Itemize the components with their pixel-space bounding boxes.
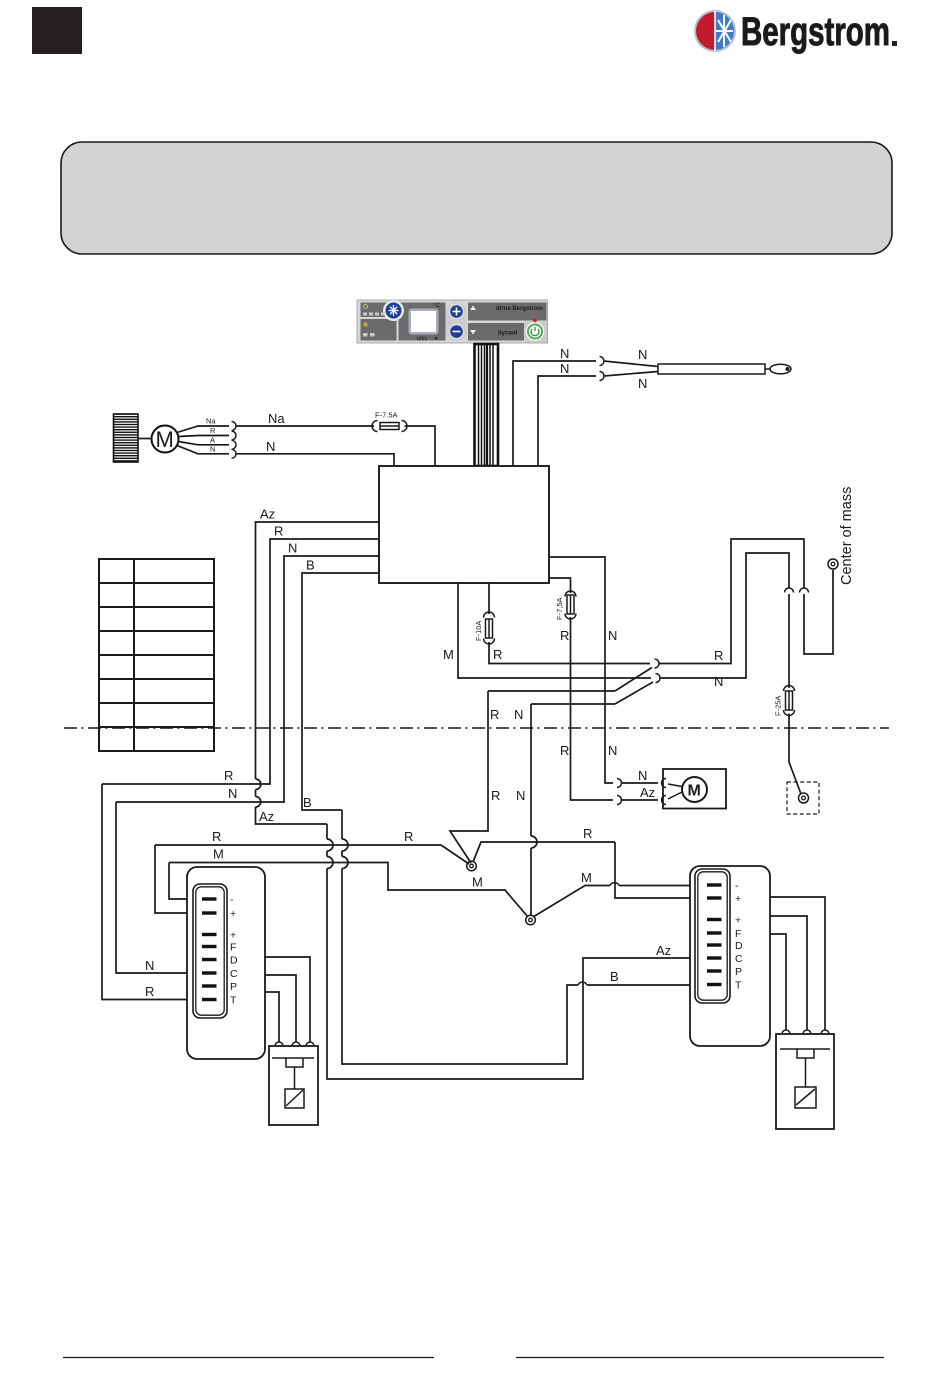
- svg-text:R: R: [145, 984, 154, 999]
- black corner tab: [32, 7, 82, 54]
- svg-text:P: P: [230, 981, 237, 993]
- svg-text:N: N: [266, 439, 275, 454]
- svg-text:Az: Az: [640, 785, 655, 800]
- probe tip: [765, 368, 771, 370]
- svg-text:N: N: [145, 958, 154, 973]
- left fuel pump: [269, 1046, 318, 1125]
- junction ground point (R): [467, 861, 477, 871]
- wire R to heater connector (+): [615, 842, 707, 898]
- wire N from control unit right: [549, 557, 613, 783]
- wire fuse F1 to control unit: [405, 426, 436, 466]
- footer rule right: [516, 1357, 884, 1359]
- wire N from control unit to probe connector (lower): [538, 376, 596, 466]
- svg-text:M: M: [472, 875, 483, 890]
- connector on Az wire: [617, 796, 622, 805]
- svg-text:bycool: bycool: [498, 331, 518, 337]
- wire Na to fuse F1: [236, 425, 374, 427]
- wire R junction to right harness: [473, 842, 615, 862]
- svg-text:P: P: [735, 966, 742, 978]
- svg-text:T: T: [735, 980, 742, 992]
- svg-text:D: D: [230, 955, 238, 967]
- wire R down to junction (zigzag): [450, 691, 488, 863]
- hop B over R: [342, 839, 348, 851]
- footer rule left: [63, 1357, 434, 1359]
- connector N: [232, 449, 237, 458]
- grey title panel: [61, 142, 892, 254]
- wire M from control unit bottom: [458, 583, 651, 678]
- svg-text:dirna Bergstrom: dirna Bergstrom: [496, 306, 543, 312]
- wire R from control unit right to fuse F3: [549, 578, 571, 593]
- wire to left pump (2): [265, 975, 296, 1042]
- wire M to left heater connector (-): [169, 863, 202, 900]
- connector Na: [232, 422, 237, 431]
- svg-text:+: +: [230, 930, 236, 942]
- wire Az loop with hops: [327, 824, 707, 1079]
- wire Az to motor box: [622, 799, 659, 801]
- wire to left pump (3): [265, 992, 279, 1042]
- wire R to left heater connector (T): [102, 784, 202, 1000]
- wire N right loop: [661, 553, 790, 678]
- right heater connector: [695, 869, 730, 1003]
- svg-text:R: R: [210, 426, 216, 435]
- svg-text:Az: Az: [260, 507, 275, 522]
- svg-text:M: M: [688, 783, 701, 800]
- svg-text:N: N: [228, 786, 237, 801]
- pump terminal 1: [306, 1042, 314, 1046]
- wire R right loop: [660, 539, 805, 664]
- svg-text:N: N: [608, 628, 617, 643]
- wire R to chassis ground (center of mass): [804, 570, 833, 654]
- svg-text:R: R: [490, 707, 499, 722]
- pins: [707, 883, 722, 886]
- wire B from control unit left: [302, 573, 379, 810]
- left heater unit: [187, 867, 265, 1059]
- svg-text:Az: Az: [259, 809, 274, 824]
- wire R from control unit bottom to fuse F2: [488, 583, 490, 614]
- svg-text:N: N: [638, 376, 647, 391]
- wire to right pump (1): [770, 897, 825, 1030]
- svg-text:N: N: [516, 788, 525, 803]
- svg-text:N: N: [560, 346, 569, 361]
- hop Az over M: [327, 857, 333, 869]
- control panel: [357, 300, 548, 343]
- wire N to left heater connector (C): [116, 802, 202, 973]
- svg-text:MIN: MIN: [417, 337, 427, 343]
- wire N to motor box: [622, 782, 659, 784]
- svg-text:R: R: [274, 524, 283, 539]
- connector on M wire: [656, 674, 661, 683]
- wire R from fuse F2: [489, 642, 650, 664]
- wire B loop with hops: [342, 810, 707, 1064]
- pump terminal 3: [782, 1030, 790, 1034]
- pump terminal 3: [275, 1042, 283, 1046]
- control unit (electronic control box): [379, 466, 549, 583]
- cab/chassis separation line: [64, 727, 889, 729]
- svg-text:Center of mass: Center of mass: [839, 487, 855, 585]
- svg-text:R: R: [212, 829, 221, 844]
- wire R from control unit left: [102, 539, 379, 784]
- wire M harness: [169, 863, 528, 918]
- connector on N wire: [617, 779, 622, 788]
- svg-text:F: F: [735, 928, 741, 940]
- svg-text:+: +: [230, 908, 236, 920]
- svg-text:+: +: [735, 893, 741, 905]
- svg-text:M: M: [213, 847, 224, 862]
- svg-text:F-7,5A: F-7,5A: [555, 597, 564, 620]
- svg-text:R: R: [224, 768, 233, 783]
- svg-text:Az: Az: [656, 943, 671, 958]
- battery ground (dashed box): [787, 782, 819, 814]
- svg-text:R: R: [583, 826, 592, 841]
- svg-text:F-25A: F-25A: [774, 696, 783, 716]
- svg-text:N: N: [288, 541, 297, 556]
- condenser motor M2 box: [663, 769, 726, 809]
- wire R from fuse F3 down to condenser motor Az pin: [571, 617, 614, 800]
- fuse F2 F-10A: [484, 612, 495, 644]
- svg-text:N: N: [514, 707, 523, 722]
- junction ground point (M): [526, 915, 536, 925]
- pump terminal 2: [292, 1042, 300, 1046]
- wire to left pump (1): [265, 957, 310, 1042]
- pins: [202, 897, 217, 900]
- fuse F1 F-7.5A: [372, 421, 407, 432]
- svg-text:Bergstrom: Bergstrom: [741, 10, 890, 54]
- wire R jumper diagonal: [615, 668, 652, 692]
- svg-text:N: N: [608, 743, 617, 758]
- ribbon cable from panel to control unit: [475, 344, 499, 466]
- wire Az from control unit left: [256, 522, 380, 824]
- svg-text:R: R: [404, 829, 413, 844]
- svg-text:B: B: [610, 969, 619, 984]
- wire N jumper diagonal: [615, 682, 653, 704]
- svg-text:-: -: [230, 894, 234, 906]
- svg-text:°C: °C: [433, 301, 441, 309]
- svg-text:T: T: [230, 995, 237, 1007]
- pump terminal 1: [821, 1030, 829, 1034]
- right heater unit: [690, 866, 770, 1046]
- pin socket N: [662, 779, 667, 788]
- wire N from control unit to probe connector (upper): [513, 361, 596, 466]
- hop B over Az: [578, 982, 587, 985]
- pump terminal 2: [803, 1030, 811, 1034]
- wire R harness horizontal: [155, 844, 441, 846]
- svg-text:R: R: [560, 743, 569, 758]
- svg-text:A: A: [210, 436, 215, 445]
- svg-text:F-7.5A: F-7.5A: [375, 411, 398, 420]
- fuse F4 F-25A: [784, 686, 795, 716]
- hop of M wire over R wire: [610, 883, 619, 886]
- connector on N wire: [785, 588, 794, 593]
- svg-text:R: R: [714, 648, 723, 663]
- wire to right pump (2): [770, 916, 807, 1030]
- connector on R wire: [800, 588, 809, 593]
- wire N motor to control unit: [236, 454, 394, 466]
- wire M from junction to heater connector (-): [533, 886, 707, 918]
- evaporator fan: [114, 414, 139, 462]
- svg-text:R: R: [560, 628, 569, 643]
- svg-text:R: R: [493, 647, 502, 662]
- right fuel pump: [776, 1034, 834, 1129]
- wire R from left harness diagonal: [441, 845, 469, 864]
- ground point center of mass: [828, 559, 838, 569]
- wire to motor circle (upper): [668, 784, 682, 787]
- svg-text:Na: Na: [268, 411, 285, 426]
- pin socket Az: [662, 796, 667, 805]
- temperature probe body: [658, 364, 765, 374]
- fuse F3 F-7.5A: [565, 591, 576, 619]
- Bergstrom logo: [694, 10, 897, 54]
- wire N to lower section: [531, 703, 615, 705]
- wire R motor lead: [179, 436, 230, 437]
- svg-text:M: M: [581, 870, 592, 885]
- svg-text:N: N: [638, 347, 647, 362]
- svg-text:+: +: [735, 915, 741, 927]
- wire N motor lead: [177, 446, 229, 454]
- svg-text:F-10A: F-10A: [474, 621, 483, 641]
- connector on lower N wire: [600, 372, 605, 381]
- svg-text:N: N: [560, 361, 569, 376]
- svg-text:R: R: [491, 788, 500, 803]
- connector on R wire: [655, 659, 660, 668]
- wire N from control unit left: [116, 556, 379, 802]
- fuse/relay legend table: [99, 559, 214, 751]
- svg-text:B: B: [303, 795, 312, 810]
- hop Az over N: [256, 797, 261, 808]
- wire N down to junction: [530, 704, 532, 915]
- hop Az over R: [256, 779, 261, 790]
- connector R: [232, 431, 237, 440]
- wire R to left heater connector (+): [155, 845, 202, 913]
- left heater connector: [193, 884, 227, 1018]
- hop Az over R: [327, 839, 333, 851]
- svg-text:F: F: [230, 942, 236, 954]
- connector A: [232, 440, 237, 449]
- svg-text:M: M: [443, 647, 454, 662]
- svg-text:Na: Na: [206, 417, 216, 426]
- wire to motor circle (lower): [668, 792, 682, 799]
- svg-text:N: N: [210, 445, 215, 454]
- svg-text:C: C: [230, 968, 238, 980]
- wire Na motor lead: [177, 426, 229, 433]
- wire N from fuse F4 to battery ground: [789, 714, 801, 795]
- wire to right pump (3): [770, 934, 786, 1030]
- hop of N wire over R wire: [531, 836, 537, 848]
- blower motor M1: [152, 426, 179, 453]
- svg-text:C: C: [735, 953, 743, 965]
- svg-text:N: N: [714, 674, 723, 689]
- hop B over M: [342, 857, 348, 869]
- svg-text:B: B: [306, 558, 315, 573]
- wire A motor lead: [179, 442, 230, 445]
- svg-text:M: M: [156, 427, 174, 452]
- svg-text:◕: ◕: [434, 335, 438, 342]
- wire N to fuse F4: [788, 594, 790, 688]
- wire R to lower section: [488, 690, 615, 692]
- svg-text:D: D: [735, 940, 743, 952]
- svg-text:N: N: [638, 768, 647, 783]
- condenser motor M2: [682, 777, 707, 802]
- wire fan to motor: [138, 438, 152, 440]
- wire N connector to probe (lower lead): [604, 372, 659, 377]
- connector on upper N wire: [600, 357, 605, 366]
- wire N connector to probe (upper lead): [604, 361, 659, 367]
- svg-text:-: -: [735, 880, 739, 892]
